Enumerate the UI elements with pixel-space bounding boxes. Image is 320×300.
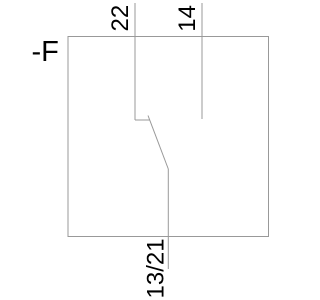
svg-text:-F: -F [32,36,59,68]
wire terminal 14 [201,3,203,119]
svg-text:13/21: 13/21 [143,238,170,298]
device outline box [68,37,269,237]
contact blade (switch) [148,116,168,170]
contact fixed tick [135,119,150,121]
wire terminal 22 [134,3,136,120]
wire common vertical [167,169,169,269]
svg-text:22: 22 [107,5,134,32]
svg-text:14: 14 [174,5,201,32]
